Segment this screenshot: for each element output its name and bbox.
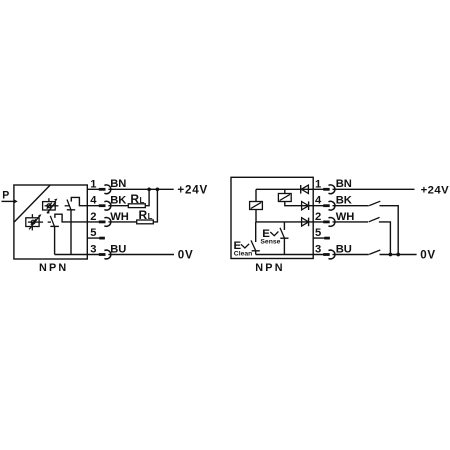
wire: S2 to pin 2 (staircase): [55, 214, 87, 222]
svg-text:+24V: +24V: [421, 184, 450, 196]
svg-text:1: 1: [315, 178, 321, 190]
pin 5 (left) stub: [87, 237, 105, 239]
label E (clean): [234, 240, 242, 252]
svg-text:L: L: [148, 212, 153, 221]
pin 1 number (right): [315, 178, 321, 190]
svg-text:NPN: NPN: [255, 262, 284, 274]
label +24V (right): [421, 184, 450, 196]
switch Sense lever: [280, 228, 284, 238]
wire BN to +24V (left): [108, 188, 173, 190]
svg-text:2: 2: [315, 211, 321, 223]
svg-text:BN: BN: [336, 178, 352, 190]
wire BN to +24V (right): [333, 188, 415, 190]
pressure sensor PS2 (lower): [26, 214, 43, 230]
diode D3 (pin 2, cathode right): [302, 218, 309, 227]
pin 2 (right) stub+plug+socket: [313, 218, 335, 227]
wire BK with load switch (right): [333, 201, 399, 254]
svg-text:L: L: [140, 196, 145, 205]
label Clean: [234, 251, 253, 258]
svg-text:5: 5: [90, 227, 96, 239]
pin 1 number: [90, 178, 96, 190]
transducer diagonal: [14, 185, 50, 222]
label 0V (left): [178, 249, 194, 262]
label BU (left): [110, 243, 126, 255]
pin 2 number: [90, 211, 96, 223]
label BK (right): [336, 195, 352, 207]
switch Clean branch upper wire: [255, 222, 257, 242]
resistor RL1: [128, 204, 145, 208]
wire rail to coil K1: [255, 189, 257, 201]
switch Sense branch upper wire: [283, 222, 285, 230]
pin 5 (right) stub: [313, 237, 330, 239]
wire BU to 0V (left): [108, 254, 174, 256]
pin 2 (left) stub+plug+socket: [87, 218, 111, 227]
svg-text:3: 3: [315, 244, 321, 256]
wire BU with load switch to 0V (right): [333, 250, 417, 255]
wire WH to resistor (left): [108, 221, 136, 223]
pin 2 number (right): [315, 211, 321, 223]
pin 4 (right) stub+plug+socket: [313, 201, 335, 210]
svg-text:0V: 0V: [420, 249, 436, 262]
switch S1 lever: [67, 200, 71, 210]
pin 3 number (right): [315, 244, 321, 256]
wire pin2 line to diode D3: [256, 221, 313, 223]
junction dot A: [147, 187, 151, 191]
switch Clean lever: [251, 240, 256, 250]
label E (sense): [262, 228, 270, 240]
wire: S2 fixed contact to 0V rail: [54, 226, 56, 254]
svg-text:1: 1: [90, 178, 96, 190]
+24V rail inside box: [256, 188, 313, 190]
pin 3 (left) stub+plug+socket: [87, 250, 111, 259]
pin 3 number: [90, 244, 96, 256]
svg-text:WH: WH: [336, 211, 355, 223]
junction dot B: [156, 187, 160, 191]
svg-text:BU: BU: [110, 243, 126, 255]
0V rail inside box to pin 3: [55, 254, 88, 256]
svg-text:P: P: [2, 190, 9, 202]
svg-text:R: R: [130, 192, 139, 206]
caret mark (sense): [270, 232, 278, 236]
label WH (right): [336, 211, 355, 223]
pin 5 number: [90, 227, 96, 239]
junction dot C: [389, 253, 393, 257]
svg-text:5: 5: [315, 227, 321, 239]
switch S2 lever: [50, 216, 54, 227]
svg-text:WH: WH: [110, 211, 129, 223]
label BU (right): [336, 243, 352, 255]
pressure input arrow P: [2, 199, 18, 203]
label 0V (right): [420, 249, 436, 262]
label Sense: [260, 239, 280, 246]
wire Clean to 0V rail: [255, 251, 257, 255]
pressure sensor PS1 (upper): [43, 198, 59, 213]
svg-text:0V: 0V: [178, 249, 194, 262]
pin 4 number (right): [315, 195, 322, 207]
diode D1 (pin 1, cathode left): [301, 185, 309, 194]
pin 1 (right) stub+plug+socket: [313, 185, 335, 194]
label RL2: [139, 208, 153, 222]
resistor RL2: [137, 220, 154, 224]
caret mark (clean): [241, 244, 249, 248]
label +24V (left): [177, 183, 208, 196]
wire coil K2 to diode D2: [285, 202, 313, 206]
switch S1 fixed contact T-bar: [67, 209, 75, 211]
svg-text:BK: BK: [110, 195, 126, 207]
junction dot D: [396, 253, 400, 257]
wire RL2 to junction: [153, 189, 157, 222]
svg-text:R: R: [139, 208, 148, 222]
wire rail to coil K2: [284, 189, 286, 193]
switch S2 contact dash: [48, 221, 51, 223]
pin 4 number: [90, 195, 97, 207]
svg-text:Clean: Clean: [234, 251, 253, 258]
pin 3 (right) stub+plug+socket: [313, 250, 335, 259]
svg-text:2: 2: [90, 211, 96, 223]
switch S1 contact dash: [65, 205, 69, 207]
wire coil K1 to pin2 node: [255, 210, 257, 222]
wire RL1 to junction: [145, 189, 149, 205]
label BN (left): [110, 178, 126, 190]
wire Sense to 0V rail: [283, 238, 285, 254]
wire: S1 to pin 4 (staircase): [71, 197, 87, 205]
pin 5 number (right): [315, 227, 321, 239]
label NPN (left): [39, 262, 68, 274]
switch S2 fixed contact T-bar: [50, 225, 59, 227]
label BN (right): [336, 178, 352, 190]
label WH (left): [110, 211, 129, 223]
svg-text:BU: BU: [336, 243, 352, 255]
svg-text:Sense: Sense: [260, 239, 280, 246]
label RL1: [130, 192, 144, 206]
svg-text:BN: BN: [110, 178, 126, 190]
sensor body box (right): [231, 177, 313, 258]
switch Clean T-bar: [252, 250, 260, 252]
pin 4 (left) stub+plug+socket: [87, 201, 111, 210]
0V rail inside box (right): [256, 254, 314, 256]
wire: S1 fixed contact to 0V rail: [70, 210, 72, 255]
coil K1 (clean valve solenoid): [250, 202, 263, 210]
switch Sense T-bar: [280, 237, 288, 239]
wire BK to resistor (left): [108, 205, 128, 207]
wire WH with load switch (right): [333, 217, 391, 254]
svg-text:4: 4: [315, 195, 322, 207]
svg-text:BK: BK: [336, 195, 352, 207]
svg-text:+24V: +24V: [177, 183, 208, 196]
sensor body box (left): [14, 185, 87, 259]
coil K2 (sense valve solenoid): [278, 194, 291, 202]
svg-text:NPN: NPN: [39, 262, 68, 274]
pin 1 (left) stub+plug+socket: [87, 185, 111, 194]
label NPN (right): [255, 262, 284, 274]
svg-text:4: 4: [90, 195, 97, 207]
svg-text:3: 3: [90, 244, 96, 256]
diode D2 (pin 4, cathode right): [302, 201, 309, 210]
port label P: [2, 190, 9, 202]
label BK (left): [110, 195, 126, 207]
